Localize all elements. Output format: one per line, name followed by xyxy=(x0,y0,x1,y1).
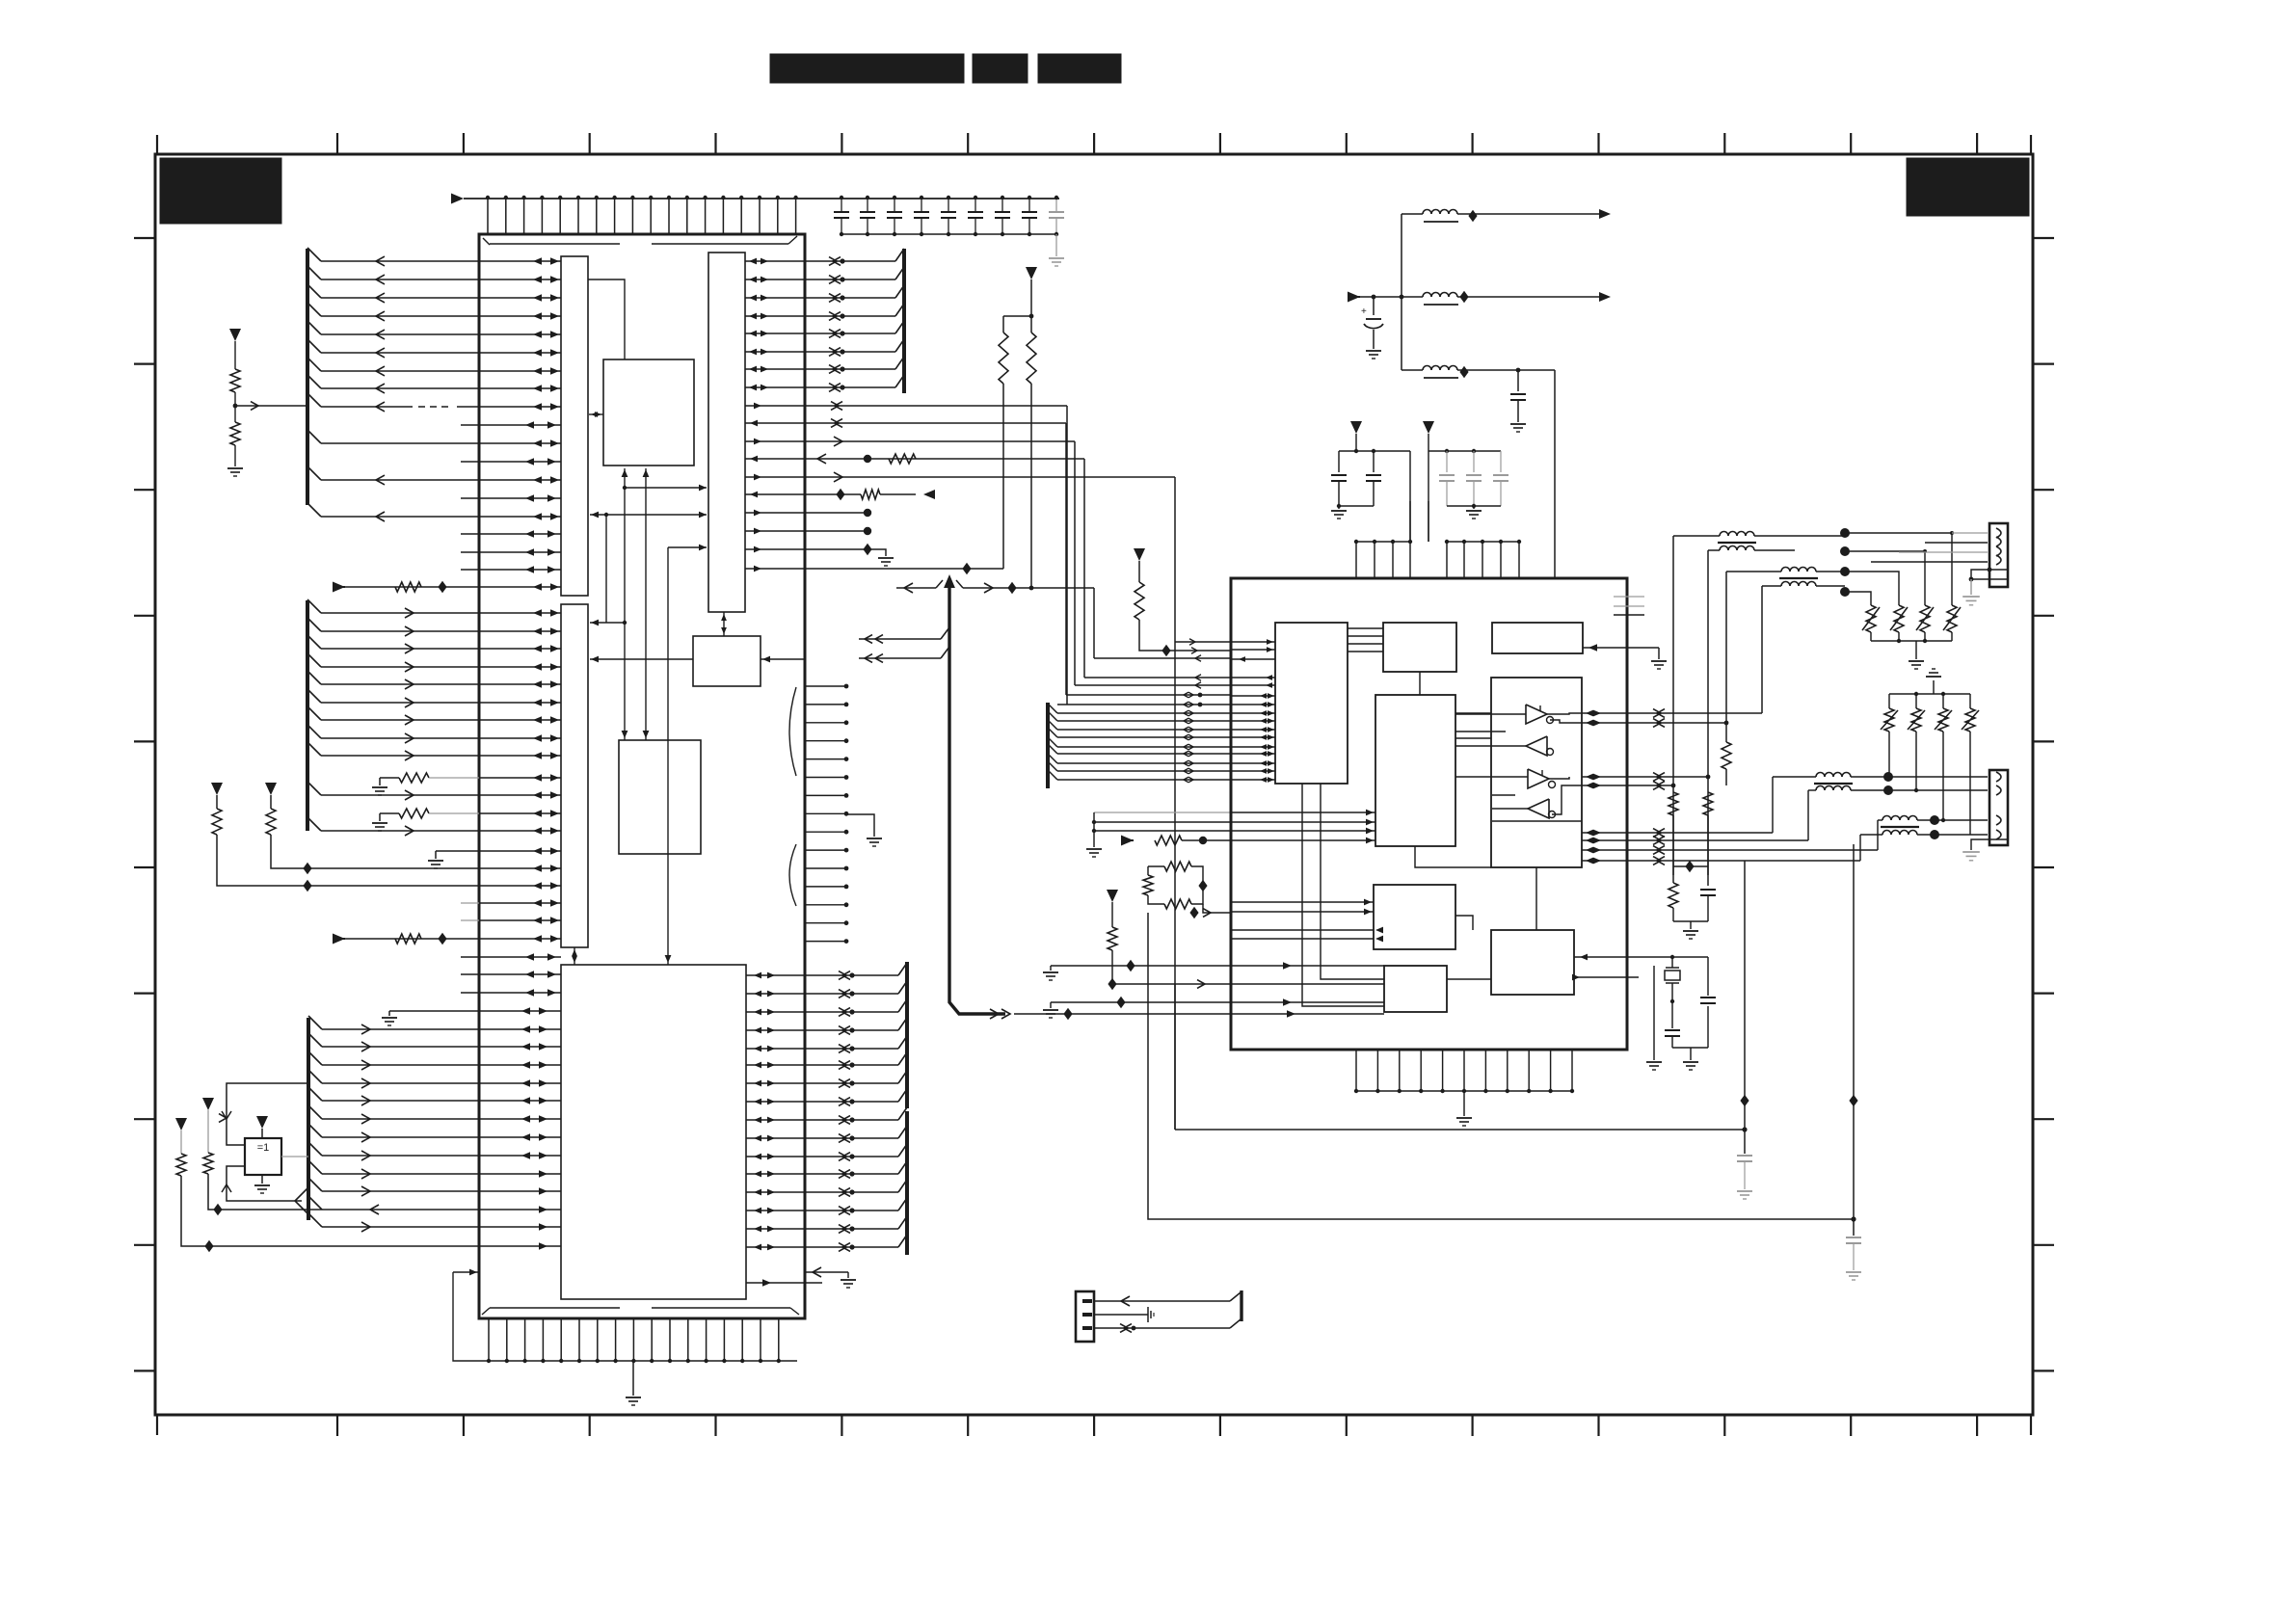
cap group CG2 xyxy=(1428,449,1508,542)
tri-state buffer U2c xyxy=(1528,769,1556,788)
input flag IN1 xyxy=(333,582,345,593)
buffer output jogs xyxy=(1547,713,1582,814)
U2 block C input xyxy=(1583,644,1667,669)
gate U3 =1 xyxy=(245,1138,281,1175)
bus B1 wires xyxy=(321,261,479,517)
bus collector B3 spine xyxy=(308,1016,322,1227)
gate input2 wire xyxy=(222,1166,308,1214)
U1 wire A-B upper xyxy=(623,485,707,492)
U1 left pin rows xyxy=(461,257,561,997)
drop v1810 xyxy=(1740,861,1749,1154)
U1 box E left pin rows xyxy=(479,1007,561,1250)
thick bus wire xyxy=(944,574,1231,1020)
choke return v1791 xyxy=(1722,572,1731,785)
U1 wire A2-E vertical xyxy=(572,947,577,965)
U2 block D pin rows xyxy=(1231,810,1375,844)
resistor Rn xyxy=(1135,582,1231,656)
gate supply xyxy=(256,1116,268,1138)
U2 top pin stubs xyxy=(1354,540,1521,578)
row 570 stub xyxy=(805,544,894,566)
power pin stubs into U1 xyxy=(486,196,798,234)
choke T3 xyxy=(1773,773,1888,791)
connector J3 pins xyxy=(1082,1301,1092,1328)
bus collector B1 spine xyxy=(307,248,321,517)
U1 wire C pin1 vertical xyxy=(622,468,628,740)
sheet frame xyxy=(155,154,2033,1415)
bus peel wire 2 xyxy=(859,647,949,662)
U2 bottom ground xyxy=(1456,1091,1472,1126)
U2 right row wires xyxy=(1582,709,1878,865)
pulldown row 807 xyxy=(372,773,479,795)
U1 wire B-F vertical xyxy=(721,612,727,636)
bus B3 wires xyxy=(322,1024,479,1232)
U1 strip B right rows xyxy=(745,403,805,572)
wire row 955 xyxy=(461,919,479,921)
U2 wire E vertical xyxy=(1535,867,1537,930)
bus collector R3 xyxy=(746,1107,907,1255)
row 1040 wire xyxy=(1043,997,1292,1018)
choke T2 xyxy=(1726,568,1845,586)
input flag IN2 xyxy=(333,934,345,945)
choke T1 xyxy=(1673,532,1845,551)
resistor R_div2 xyxy=(230,406,240,466)
bus B1 dashed wire segment xyxy=(418,406,451,408)
cap group CG1 xyxy=(1331,449,1410,542)
U2 block H xyxy=(1384,966,1447,1012)
coil L3 xyxy=(1402,366,1555,379)
wire IN1 xyxy=(345,581,479,593)
U2 NC stubs xyxy=(1614,597,1644,615)
corner label redacted top-right xyxy=(1907,158,2029,216)
choke T3 feeds xyxy=(1773,777,1808,840)
resistor Rp xyxy=(1108,927,1231,990)
crystal row wires xyxy=(1572,954,1672,981)
supply P6 xyxy=(1423,421,1434,451)
bus collector R2 xyxy=(746,962,907,1108)
U2 block C xyxy=(1492,623,1583,653)
resistor network loop xyxy=(1143,862,1231,918)
row 495 wire xyxy=(805,472,1175,1130)
corner label redacted top-left xyxy=(160,158,281,224)
connector J1 wires to plug xyxy=(1871,533,1988,562)
buffer input wires xyxy=(1455,714,1528,809)
choke return v1828 xyxy=(1761,586,1763,713)
row 1049 ground stub xyxy=(382,1011,479,1025)
U2 wire D bottom xyxy=(1415,846,1491,867)
supply rail xyxy=(464,198,1059,200)
crystal caps xyxy=(1665,957,1716,1070)
bus collector B2 spine xyxy=(307,599,321,831)
bus collector B4 into U2 xyxy=(1048,703,1231,788)
node divider xyxy=(233,402,307,411)
U2 wire F-G xyxy=(1455,916,1473,930)
input flag IN4 xyxy=(1348,292,1403,303)
U1 bus ripper arc upper xyxy=(789,687,796,776)
gnd trio rows xyxy=(1086,812,1231,857)
row 1002 wire xyxy=(1043,960,1292,980)
U2 wire A-D verticals xyxy=(1302,784,1384,1006)
electrolytic C_e xyxy=(1361,297,1383,359)
tri-state buffer U2a xyxy=(1526,705,1554,724)
varistor bank V1 xyxy=(1862,605,1961,669)
row 1331 wire xyxy=(746,1279,822,1287)
U1 ladder ground xyxy=(846,814,882,846)
U1 wrap-around pin xyxy=(453,1269,479,1276)
U2 block F pin rows xyxy=(1231,899,1383,943)
connector J2 ground xyxy=(1962,839,1989,861)
row 513 stub xyxy=(805,489,935,500)
U2 block E xyxy=(1491,678,1582,867)
U1 inner block D xyxy=(619,740,701,854)
row 883 ground tie xyxy=(428,851,479,868)
row 1052 arrow xyxy=(1287,1010,1295,1018)
choke return v1772 xyxy=(1706,550,1711,875)
varistor bank V2 xyxy=(1881,669,1979,732)
supply P5 xyxy=(1350,421,1362,451)
U2 wire D-E xyxy=(1455,713,1491,738)
svg-text:+: + xyxy=(1361,306,1367,317)
U1 wire to B lower xyxy=(665,545,707,965)
U1 right pin ladder xyxy=(806,684,848,944)
long wire y1172 xyxy=(1175,1129,1745,1131)
varistor V2 taps xyxy=(1889,732,1970,835)
U2 block F xyxy=(1374,885,1455,949)
U1 pin strip B xyxy=(708,253,745,612)
choke return v1736 xyxy=(1671,536,1676,875)
row 590 wire xyxy=(805,563,1003,574)
cap bank ground xyxy=(1049,234,1064,266)
resistor R_div1 xyxy=(230,341,240,406)
bus B2 wires xyxy=(321,608,479,836)
connector J2 staircase xyxy=(1888,777,1988,835)
cap C_L3 xyxy=(1510,370,1526,432)
choke T4 feeds xyxy=(1860,820,1878,861)
U2 wire G-H xyxy=(1447,978,1491,980)
U2 block D xyxy=(1375,695,1455,846)
U2 block A xyxy=(1275,623,1348,784)
svg-text:=1: =1 xyxy=(257,1142,270,1154)
connector J1 pins xyxy=(1840,528,1850,597)
supply R pullup row 901 xyxy=(265,783,479,874)
gate input1 wire xyxy=(219,1083,308,1145)
supply P2 xyxy=(1026,267,1037,316)
U1 pin strip A2 xyxy=(561,604,588,947)
terminator R on v1736 xyxy=(1669,792,1678,815)
title block redacted xyxy=(770,54,964,83)
U1 inner block F xyxy=(693,636,761,686)
J3 wire 1 xyxy=(1094,1292,1241,1306)
U1 wire C pin2 vertical xyxy=(643,468,650,740)
U1 bottom rail ground xyxy=(626,1361,641,1405)
U1 top inner bracket xyxy=(483,236,797,245)
row 608 wire xyxy=(896,580,1094,658)
IC U2 outline xyxy=(1231,578,1627,1050)
U1 bottom inner bracket xyxy=(482,1308,799,1315)
U2 block H pin rows xyxy=(1231,966,1384,1014)
connector J2 body xyxy=(1989,770,2008,845)
supply R pullup row 919 xyxy=(211,783,479,891)
bus peel wire 1 xyxy=(859,627,949,643)
J3 ribbon bracket xyxy=(1240,1290,1242,1321)
gate ground xyxy=(254,1175,270,1193)
U1 inner block E xyxy=(561,965,746,1299)
connector J1 staircase xyxy=(1845,531,1954,605)
U1 wire F right xyxy=(761,656,805,663)
coil L1-L2 link xyxy=(1401,214,1402,370)
v1810 cap gnd xyxy=(1737,1156,1752,1199)
supply flag P1 xyxy=(229,329,241,341)
bus B1 arrowheads xyxy=(376,256,385,521)
decoupling capacitor bank C1xx xyxy=(834,196,1064,236)
U1 wire branch v629 xyxy=(605,515,607,623)
U1 inner block C xyxy=(603,359,694,466)
row 458 wire xyxy=(805,437,1075,685)
row 421 wire xyxy=(805,402,1067,705)
drop wire v1219 xyxy=(1174,984,1176,1130)
U1 wire A2 horizontal xyxy=(590,620,627,626)
J3 wire 3 xyxy=(1094,1319,1241,1332)
supply input flag xyxy=(451,194,464,204)
terminator R on v1772 xyxy=(1703,792,1713,815)
U1 wire A-B mid xyxy=(590,512,707,519)
connector J3 body xyxy=(1076,1291,1094,1342)
tri-state buffer U2b xyxy=(1526,736,1554,756)
title block redacted 3 xyxy=(1038,54,1121,83)
pulldown row 844 xyxy=(372,809,479,831)
U1 pin strip A1 xyxy=(561,256,588,596)
row 1320 wire xyxy=(805,1267,856,1288)
resistor Rm2 xyxy=(1027,314,1036,588)
connector J2 pins xyxy=(1883,772,1939,839)
supply P4 xyxy=(1107,890,1118,927)
drop wire v1191 xyxy=(1148,913,1854,1219)
U1 wire F left xyxy=(590,656,693,663)
resistor Rb pullup xyxy=(202,1098,322,1215)
U1 wire A1-C top xyxy=(588,279,625,359)
supply P3 xyxy=(1134,548,1145,582)
bus collector R1 (upper right) xyxy=(745,249,904,393)
coil L2 xyxy=(1402,291,1611,305)
IC U1 outline xyxy=(479,234,805,1318)
wires into U2 upper rows xyxy=(1057,639,1231,707)
drop v1923 xyxy=(1849,844,1857,1236)
row 551 stub xyxy=(805,527,871,535)
U1 wire C-A1 xyxy=(589,412,603,417)
v1923 cap gnd xyxy=(1846,1237,1861,1280)
title block redacted 2 xyxy=(973,54,1028,83)
gate input1 arrow xyxy=(222,1111,231,1119)
U2 bottom pin stubs xyxy=(1354,1050,1574,1093)
crystal X1 xyxy=(1646,955,1680,1070)
wire row 937 xyxy=(461,902,479,904)
row 439 wire xyxy=(805,419,1066,695)
choke T4 xyxy=(1860,816,1935,836)
wire IN2 xyxy=(345,933,479,945)
U2 top risers xyxy=(1410,370,1555,578)
connector J1 body xyxy=(1989,523,2008,587)
block E split line xyxy=(1492,820,1582,822)
resistor Ra pullup xyxy=(175,1118,479,1252)
row 476 wire xyxy=(805,454,1084,678)
frame tick marks xyxy=(134,133,2054,1436)
RC to ground xyxy=(1669,815,1716,939)
U1 bottom pin stubs and rail xyxy=(453,1272,797,1363)
U2 block B xyxy=(1383,623,1456,672)
resistor Rm1 xyxy=(999,316,1031,569)
U2 wire A-B xyxy=(1348,628,1383,652)
row 532 stub xyxy=(805,509,871,517)
U2 wire B-D xyxy=(1419,672,1421,695)
tri-state buffer U2d xyxy=(1528,799,1556,818)
coil L1 xyxy=(1402,209,1611,222)
J3 wire 2 xyxy=(1094,1307,1154,1322)
U2 block G xyxy=(1491,930,1574,995)
connector J1 ground xyxy=(1962,568,1991,605)
U2 block A pin rows xyxy=(1231,639,1275,783)
U1 bus ripper arc lower xyxy=(789,844,796,906)
ground G_div xyxy=(227,468,243,476)
input flag IN3 xyxy=(1121,836,1231,846)
gate output wire xyxy=(281,1156,308,1157)
